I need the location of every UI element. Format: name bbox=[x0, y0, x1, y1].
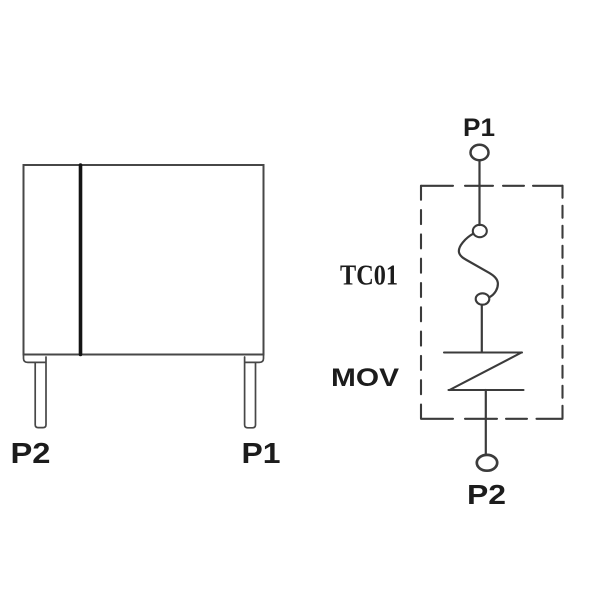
label P1 (schematic top terminal) bbox=[463, 114, 495, 142]
wire thermal cutoff to MOV bbox=[481, 305, 483, 352]
svg-text:MOV: MOV bbox=[331, 364, 399, 392]
node P1 terminal circle bbox=[471, 145, 489, 160]
label P2 (schematic bottom terminal) bbox=[467, 479, 506, 510]
wire P1 terminal to thermal cutoff bbox=[478, 160, 480, 225]
right standoff foot bbox=[245, 355, 264, 363]
svg-text:P2: P2 bbox=[467, 479, 506, 510]
thermal cutoff TC01 s-shaped element bbox=[459, 234, 498, 298]
node P2 terminal circle bbox=[477, 455, 497, 471]
component package body outline bbox=[24, 165, 264, 355]
thermal cutoff TC01 bottom contact circle bbox=[476, 293, 490, 304]
label MOV (varistor) bbox=[331, 364, 399, 392]
pin P2 lead (left) bbox=[35, 357, 46, 428]
label P2 (package left pin) bbox=[11, 438, 51, 470]
varistor MOV diagonal stroke bbox=[450, 353, 522, 391]
wire MOV to P2 terminal bbox=[485, 390, 487, 455]
varistor MOV bottom plate bbox=[449, 389, 524, 391]
left standoff foot bbox=[24, 355, 46, 363]
svg-text:P2: P2 bbox=[11, 438, 51, 470]
thermal cutoff TC01 top contact circle bbox=[473, 225, 487, 237]
svg-text:P1: P1 bbox=[242, 438, 281, 470]
svg-text:P1: P1 bbox=[463, 114, 495, 142]
pin P1 lead (right) bbox=[245, 357, 256, 428]
label P1 (package right pin) bbox=[242, 438, 281, 470]
svg-text:TC01: TC01 bbox=[340, 260, 398, 292]
dashed enclosure box bbox=[421, 186, 563, 419]
package divider line (epoxy seam) bbox=[79, 165, 83, 355]
varistor MOV top plate bbox=[444, 351, 522, 353]
label TC01 (thermal cutoff) bbox=[340, 260, 398, 292]
